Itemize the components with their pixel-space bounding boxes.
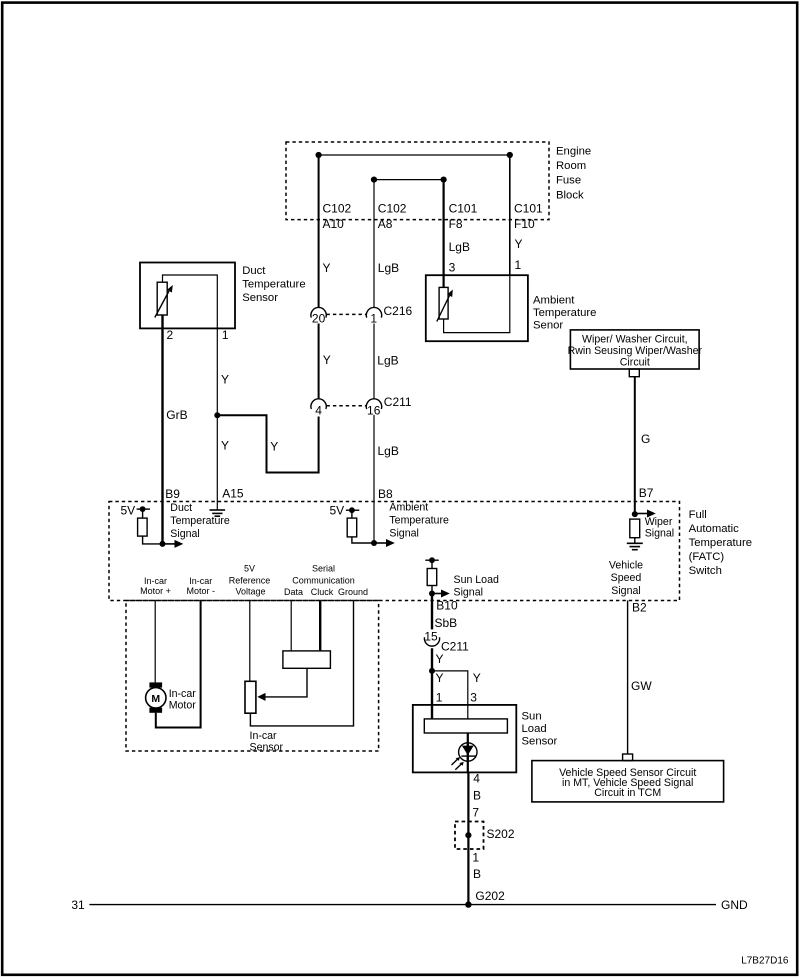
svg-text:5V: 5V (330, 504, 345, 518)
5V supply (duct pullup) (121, 503, 151, 517)
wire: duct pin 2 GrB down to B9 junction (161, 315, 163, 544)
svg-text:Y: Y (436, 652, 444, 666)
svg-text:Temperature: Temperature (689, 537, 752, 549)
resistor (ambient pullup) (347, 510, 357, 537)
svg-text:Y: Y (515, 237, 523, 251)
photodiode light arrows (452, 757, 464, 770)
svg-text:Y: Y (473, 671, 481, 685)
svg-text:3: 3 (470, 690, 477, 704)
sun sensor internal bar (424, 719, 507, 733)
wire C102 A8 (LgB) from fuse to connector 1 (373, 180, 375, 308)
arrow: wiper signal (635, 510, 656, 518)
svg-text:5V: 5V (121, 503, 136, 517)
svg-text:Voltage: Voltage (235, 587, 265, 597)
arrow: duct temperature signal (163, 540, 184, 548)
wire: serial clock (bold) (319, 601, 321, 651)
node: G202 (465, 901, 471, 907)
wire C101 F10 (Y) from fuse to ambient sensor pin 1 (509, 155, 511, 275)
svg-text:C102: C102 (378, 202, 407, 216)
wire: duct sensor internal top link (163, 275, 218, 328)
node: bus1 left (316, 152, 322, 158)
thermistor (ambient) body (439, 287, 448, 319)
svg-text:15: 15 (424, 630, 438, 644)
svg-text:Vehicle: Vehicle (609, 559, 643, 571)
svg-text:Wiper: Wiper (645, 516, 673, 528)
svg-text:Switch: Switch (689, 565, 722, 577)
thermistor (duct sensor) body (157, 282, 167, 315)
connector C211 pin 16 (arc) (366, 399, 381, 409)
svg-text:Senor: Senor (533, 319, 563, 331)
wire: duct pin 1 down to ground A15 (216, 328, 218, 510)
wire: sun pullup to junction (431, 586, 433, 594)
resistor (duct pullup) (138, 509, 148, 536)
photodiode triangle (462, 746, 474, 756)
connector C211 pin 4 (arc) (311, 399, 326, 409)
svg-text:In-car: In-car (169, 688, 197, 700)
svg-text:4: 4 (473, 772, 480, 786)
svg-text:Load: Load (522, 723, 547, 735)
svg-text:Serial: Serial (312, 564, 335, 574)
svg-text:1: 1 (515, 258, 522, 272)
svg-text:Fuse: Fuse (556, 175, 581, 187)
FATC switch (dashed box) (109, 502, 680, 601)
5V supply (sun load pullup) (425, 557, 438, 563)
ground symbol A15 (210, 510, 226, 516)
wire C101 F8 (LgB) from fuse to ambient sensor pin 3 (443, 180, 445, 288)
svg-text:Room: Room (556, 160, 586, 172)
svg-text:Rwin Seusing Wiper/Washer: Rwin Seusing Wiper/Washer (568, 345, 703, 357)
svg-text:5V: 5V (244, 564, 255, 574)
svg-text:Sensor: Sensor (522, 736, 558, 748)
svg-text:Motor -: Motor - (187, 586, 216, 596)
wire: B10 SbB sun load down to connector 15 (431, 594, 433, 630)
svg-text:Cluck: Cluck (311, 587, 334, 597)
wire: bar to photodiode (467, 733, 469, 772)
svg-text:In-car: In-car (189, 576, 212, 586)
svg-text:In-car: In-car (144, 576, 167, 586)
svg-text:SbB: SbB (435, 616, 458, 630)
wire: pot bottom to ground terminal (250, 601, 353, 726)
resistor (wiper) (630, 519, 640, 538)
svg-text:Ground: Ground (338, 587, 368, 597)
svg-text:Wiper/ Washer Circuit,: Wiper/ Washer Circuit, (582, 334, 688, 346)
thermistor (ambient) arrow (437, 296, 450, 322)
svg-text:(FATC): (FATC) (689, 551, 725, 563)
node: sun load junction (429, 591, 435, 597)
svg-text:A8: A8 (378, 217, 393, 231)
svg-text:LgB: LgB (378, 444, 399, 458)
svg-text:Sun: Sun (522, 710, 542, 722)
svg-text:Sun Load: Sun Load (454, 574, 499, 586)
svg-text:Y: Y (270, 440, 278, 454)
wire: sun load Y to junction (431, 648, 433, 719)
node: bus1 right (507, 152, 513, 158)
terminal tab (vehicle speed box) (623, 754, 633, 761)
svg-text:B: B (473, 867, 481, 881)
photodiode cathode bar (461, 755, 476, 757)
arrow: sun load signal (432, 590, 450, 598)
wire: G from wiper box to B7 (634, 377, 636, 514)
svg-text:B9: B9 (165, 487, 180, 501)
svg-text:Temperature: Temperature (389, 515, 449, 527)
node: S202 splice (465, 832, 471, 838)
svg-text:Signal: Signal (389, 528, 418, 540)
wire: in-car motor + (154, 601, 156, 683)
svg-text:B10: B10 (436, 599, 458, 613)
wire: A8 between connectors 1 and 16 (373, 324, 375, 399)
svg-text:Signal: Signal (645, 528, 674, 540)
wire C102 A10 (Y) from fuse to connector 20 (318, 155, 320, 307)
svg-text:C211: C211 (441, 640, 469, 654)
node: junction duct pin1 / jog (214, 412, 220, 418)
svg-text:B: B (473, 789, 481, 803)
svg-text:Sensor: Sensor (250, 742, 284, 754)
wire: 5V reference voltage to potentiometer (249, 601, 251, 682)
node: wiper junction (632, 511, 638, 517)
sun load sensor box (413, 705, 517, 773)
svg-text:31: 31 (71, 898, 85, 912)
svg-text:1: 1 (436, 690, 443, 704)
splice S202 (dashed box) (455, 822, 484, 850)
svg-text:Ambient: Ambient (533, 295, 575, 307)
svg-text:1: 1 (222, 328, 229, 342)
vehicle speed sensor circuit box (532, 761, 724, 802)
ambient temperature sensor box (426, 275, 528, 341)
svg-text:3: 3 (449, 260, 456, 274)
svg-text:L7B27D16: L7B27D16 (741, 955, 789, 966)
svg-text:LgB: LgB (377, 354, 398, 368)
wire: serial data (290, 601, 292, 651)
svg-text:F8: F8 (449, 217, 463, 231)
svg-text:Reference: Reference (229, 576, 271, 586)
wire: ambient internal bottom link (444, 275, 510, 332)
svg-text:G: G (641, 432, 650, 446)
svg-text:C102: C102 (323, 202, 352, 216)
wire: wiper resistor to ground (634, 538, 636, 544)
wire: fuse block bus 2 (374, 179, 444, 181)
in-car motor body M (146, 688, 166, 708)
connector C216 pin 1 (arc) (366, 307, 381, 317)
svg-text:LgB: LgB (378, 261, 399, 275)
svg-text:M: M (151, 693, 160, 705)
arrow: wiper of potentiometer (257, 693, 265, 701)
svg-text:C101: C101 (449, 202, 478, 216)
ground symbol (wiper) (627, 543, 643, 549)
svg-text:Signal: Signal (454, 586, 483, 598)
svg-text:GrB: GrB (166, 408, 187, 422)
5V supply (ambient pullup) (330, 504, 360, 518)
serial interface box (283, 651, 331, 668)
ground bus line 31 (89, 904, 716, 906)
svg-text:Signal: Signal (611, 585, 640, 597)
node: B9 junction (160, 541, 166, 547)
svg-text:Ambient: Ambient (389, 502, 428, 514)
in-car motor brush cap bottom (149, 708, 162, 713)
svg-text:GW: GW (631, 679, 652, 693)
photodiode circle (459, 743, 477, 761)
svg-text:1: 1 (472, 851, 479, 865)
in-car motor brush cap top (149, 682, 162, 687)
svg-text:Circuit in TCM: Circuit in TCM (594, 787, 661, 799)
svg-text:Sensor: Sensor (242, 292, 278, 304)
svg-text:Temperature: Temperature (242, 279, 305, 291)
svg-text:Block: Block (556, 189, 584, 201)
photodiode wire through (467, 743, 469, 761)
duct temperature sensor box (140, 263, 235, 329)
svg-text:LgB: LgB (449, 240, 470, 254)
svg-text:Y: Y (436, 671, 444, 685)
wire: duct pullup to junction (143, 536, 163, 544)
svg-text:S202: S202 (487, 827, 515, 841)
wire: branch to pin 3 (432, 671, 468, 719)
svg-text:Motor +: Motor + (140, 586, 171, 596)
svg-text:Y: Y (323, 353, 331, 367)
svg-text:Speed: Speed (611, 572, 642, 584)
svg-text:G202: G202 (475, 889, 505, 903)
svg-text:F10: F10 (514, 217, 535, 231)
wire: dashed link C211 (327, 405, 367, 407)
svg-text:Y: Y (221, 373, 229, 387)
svg-text:Full: Full (689, 509, 707, 521)
connector C216 pin 20 (arc) (311, 307, 326, 317)
svg-text:Data: Data (284, 587, 303, 597)
svg-text:Duct: Duct (170, 502, 192, 514)
node: B8 junction (371, 540, 377, 546)
svg-text:Circuit: Circuit (620, 357, 650, 369)
in-car sensor assembly (dashed box) (126, 601, 379, 752)
node: sun branch junction (429, 668, 435, 674)
svg-text:C211: C211 (384, 395, 412, 409)
connector C211 pin 15 (cup arc) (424, 637, 439, 646)
wire: fuse block bus 1 (319, 154, 510, 156)
terminal tab (wiper box) (629, 369, 639, 377)
svg-text:B8: B8 (378, 487, 393, 501)
wire: GW from B2 to vehicle speed box (627, 601, 629, 755)
svg-text:4: 4 (315, 403, 322, 417)
wire: motor loop to in-car motor - (156, 601, 201, 728)
node: bus2 right (441, 177, 447, 183)
svg-text:Automatic: Automatic (689, 523, 740, 535)
resistor (sun load pullup) (427, 560, 437, 585)
wire: dashed link C216 (327, 313, 367, 315)
svg-text:C101: C101 (514, 202, 543, 216)
engine room fuse block (dashed box) (286, 142, 549, 220)
thermistor (duct sensor) arrow (155, 291, 169, 318)
svg-text:Duct: Duct (242, 265, 266, 277)
wire: serial box stub down (264, 668, 308, 697)
svg-text:Engine: Engine (556, 145, 591, 157)
svg-text:Communication: Communication (292, 576, 355, 586)
wire: B8 LgB from connector 16 down to junction (373, 415, 375, 543)
svg-text:Motor: Motor (169, 700, 197, 712)
svg-text:2: 2 (167, 328, 174, 342)
wiper/washer circuit box (570, 330, 699, 369)
wire: jog from junction to connector 4 (217, 415, 318, 472)
svg-text:7: 7 (472, 806, 479, 820)
svg-text:C216: C216 (384, 304, 413, 318)
svg-text:GND: GND (721, 898, 748, 912)
svg-text:Y: Y (323, 261, 331, 275)
potentiometer (in-car sensor) body (245, 681, 256, 713)
wire: A10 between connectors 20 and 4 (318, 324, 320, 399)
svg-text:B7: B7 (639, 486, 654, 500)
svg-text:A10: A10 (323, 217, 345, 231)
wire: sun sensor pin 4 down to S202 (467, 772, 469, 904)
wire: ambient pullup to junction (352, 537, 374, 543)
svg-text:Y: Y (221, 439, 229, 453)
svg-text:B2: B2 (632, 601, 647, 615)
svg-text:In-car: In-car (250, 730, 278, 742)
node: bus2 left (371, 177, 377, 183)
svg-text:Temperature: Temperature (533, 307, 596, 319)
svg-text:Temperature: Temperature (170, 515, 230, 527)
svg-text:Signal: Signal (170, 528, 199, 540)
svg-text:A15: A15 (222, 487, 244, 501)
arrow: ambient temperature signal (374, 539, 395, 547)
